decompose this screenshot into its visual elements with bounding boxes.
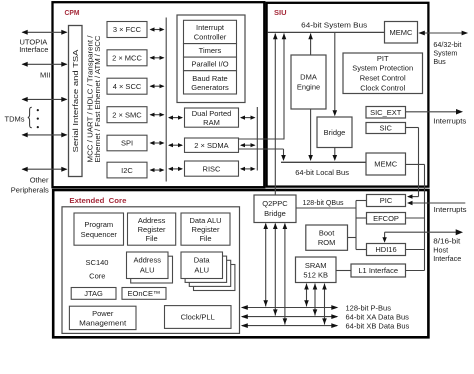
svg-text:SIU: SIU <box>274 8 287 17</box>
svg-text:Serial Interface and TSA: Serial Interface and TSA <box>73 49 80 152</box>
svg-text:HDI16: HDI16 <box>375 245 396 254</box>
svg-text:3 × FCC: 3 × FCC <box>113 25 142 34</box>
svg-text:ROM: ROM <box>318 238 336 247</box>
svg-text:Generators: Generators <box>191 83 229 92</box>
svg-text:SPI: SPI <box>121 139 133 148</box>
svg-text:Program: Program <box>84 220 113 229</box>
svg-text:SC140: SC140 <box>86 258 109 267</box>
svg-text:SRAM: SRAM <box>305 261 327 270</box>
svg-text:Extended Core: Extended Core <box>69 196 126 205</box>
svg-text:Interrupts: Interrupts <box>433 116 466 125</box>
svg-text:File: File <box>199 234 211 243</box>
svg-text:File: File <box>146 234 158 243</box>
svg-text:MEMC: MEMC <box>374 160 397 169</box>
svg-text:CPM: CPM <box>65 8 80 17</box>
svg-text:Timers: Timers <box>199 46 222 55</box>
svg-text:Interrupts: Interrupts <box>434 205 467 214</box>
svg-text:MEMC: MEMC <box>390 28 413 37</box>
svg-text:EFCOP: EFCOP <box>373 214 399 223</box>
svg-text:Interrupt: Interrupt <box>196 23 225 32</box>
svg-text:Dual Ported: Dual Ported <box>192 109 232 118</box>
svg-text:Address: Address <box>138 216 166 225</box>
svg-text:L1 Interface: L1 Interface <box>358 266 398 275</box>
svg-text:Power: Power <box>92 309 114 318</box>
svg-text:64-bit Local Bus: 64-bit Local Bus <box>295 168 349 177</box>
svg-text:8/16-bit: 8/16-bit <box>433 237 460 246</box>
svg-text:128-bit P-Bus: 128-bit P-Bus <box>346 304 392 313</box>
svg-text:64-bit XB Data Bus: 64-bit XB Data Bus <box>346 322 410 331</box>
svg-text:Boot: Boot <box>319 229 335 238</box>
svg-text:Bus: Bus <box>433 57 446 66</box>
svg-text:RISC: RISC <box>203 164 222 173</box>
svg-text:Management: Management <box>79 319 127 328</box>
svg-text:Address: Address <box>133 256 161 265</box>
svg-text:ALU: ALU <box>140 265 155 274</box>
svg-text:128-bit QBus: 128-bit QBus <box>303 198 344 207</box>
svg-text:Host: Host <box>433 245 448 254</box>
svg-text:512 KB: 512 KB <box>303 270 328 279</box>
svg-text:SIC: SIC <box>379 124 392 133</box>
svg-text:Sequencer: Sequencer <box>81 230 118 239</box>
svg-text:System Protection: System Protection <box>352 64 413 73</box>
svg-text:PIT: PIT <box>377 54 389 63</box>
svg-text:ALU: ALU <box>194 265 209 274</box>
svg-text:RAM: RAM <box>203 118 220 127</box>
svg-text:I2C: I2C <box>121 166 133 175</box>
svg-text:Peripherals: Peripherals <box>11 185 49 194</box>
svg-text:2 × SMC: 2 × SMC <box>112 110 142 119</box>
svg-text:Data ALU: Data ALU <box>189 216 221 225</box>
svg-text:Clock Control: Clock Control <box>360 83 405 92</box>
svg-text:Data: Data <box>194 256 211 265</box>
svg-text:64-bit XA Data Bus: 64-bit XA Data Bus <box>346 313 410 322</box>
svg-text:2 × SDMA: 2 × SDMA <box>194 141 228 150</box>
svg-text:Other: Other <box>30 175 49 184</box>
svg-text:MCC / UART / HDLC / Transparen: MCC / UART / HDLC / Transparent / <box>88 35 95 162</box>
svg-text:SIC_EXT: SIC_EXT <box>370 108 402 117</box>
svg-text:Controller: Controller <box>194 32 227 41</box>
svg-text:4 × SCC: 4 × SCC <box>113 82 142 91</box>
svg-text:DMA: DMA <box>300 73 317 82</box>
svg-text:Ethernet / Fast Ethernet / ATM: Ethernet / Fast Ethernet / ATM / SCC <box>95 35 102 162</box>
svg-text:Register: Register <box>192 225 220 234</box>
svg-text:2 × MCC: 2 × MCC <box>112 54 142 63</box>
svg-text:PIC: PIC <box>380 196 393 205</box>
svg-text:Interface: Interface <box>19 45 48 54</box>
svg-text:Q2PPC: Q2PPC <box>262 199 288 208</box>
svg-text:JTAG: JTAG <box>84 289 103 298</box>
svg-text:Bridge: Bridge <box>324 128 346 137</box>
svg-text:64-bit System Bus: 64-bit System Bus <box>301 20 367 29</box>
svg-text:Parallel I/O: Parallel I/O <box>191 60 228 69</box>
svg-text:Core: Core <box>89 272 105 281</box>
svg-text:Reset Control: Reset Control <box>360 74 406 83</box>
svg-text:MII: MII <box>40 70 50 79</box>
svg-text:Engine: Engine <box>297 83 320 92</box>
svg-text:Interface: Interface <box>433 254 461 263</box>
svg-text:Bridge: Bridge <box>264 209 286 218</box>
svg-text:EOnCE™: EOnCE™ <box>128 289 161 298</box>
svg-text:Baud Rate: Baud Rate <box>192 74 227 83</box>
svg-text:Clock/PLL: Clock/PLL <box>181 313 215 322</box>
svg-text:Register: Register <box>138 225 166 234</box>
svg-text:TDMs: TDMs <box>5 114 25 123</box>
